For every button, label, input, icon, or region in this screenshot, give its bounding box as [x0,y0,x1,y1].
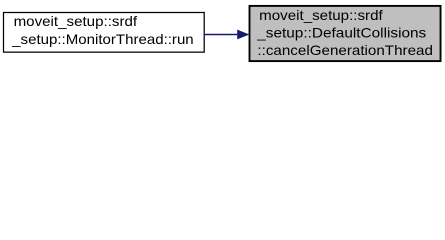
svg-text:::cancelGenerationThread: ::cancelGenerationThread [257,42,433,58]
node: moveit_setup::srdf_setup::DefaultCollisions::cancelGenerationThread (current, highlighted) [250,6,441,61]
svg-text:_setup::MonitorThread::run: _setup::MonitorThread::run [11,31,194,47]
node: moveit_setup::srdf_setup::MonitorThread::run (caller box) [4,13,205,53]
svg-text:_setup::DefaultCollisions: _setup::DefaultCollisions [256,25,426,41]
edge arrow: run -> cancelGenerationThread [204,30,249,40]
svg-text:moveit_setup::srdf: moveit_setup::srdf [259,7,383,23]
svg-text:moveit_setup::srdf: moveit_setup::srdf [14,13,138,29]
